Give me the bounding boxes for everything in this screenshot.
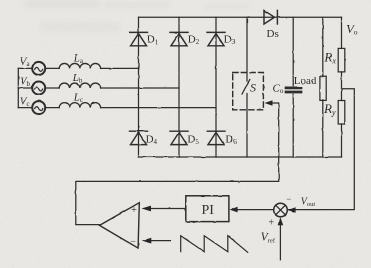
- svg-text:S: S: [250, 81, 256, 95]
- svg-text:−: −: [130, 236, 136, 247]
- svg-text:+: +: [131, 205, 137, 216]
- svg-text:+: +: [268, 218, 274, 229]
- svg-text:Ds: Ds: [267, 28, 279, 40]
- svg-text:Load: Load: [294, 75, 317, 87]
- svg-text:−: −: [286, 194, 291, 204]
- svg-text:PI: PI: [202, 203, 215, 218]
